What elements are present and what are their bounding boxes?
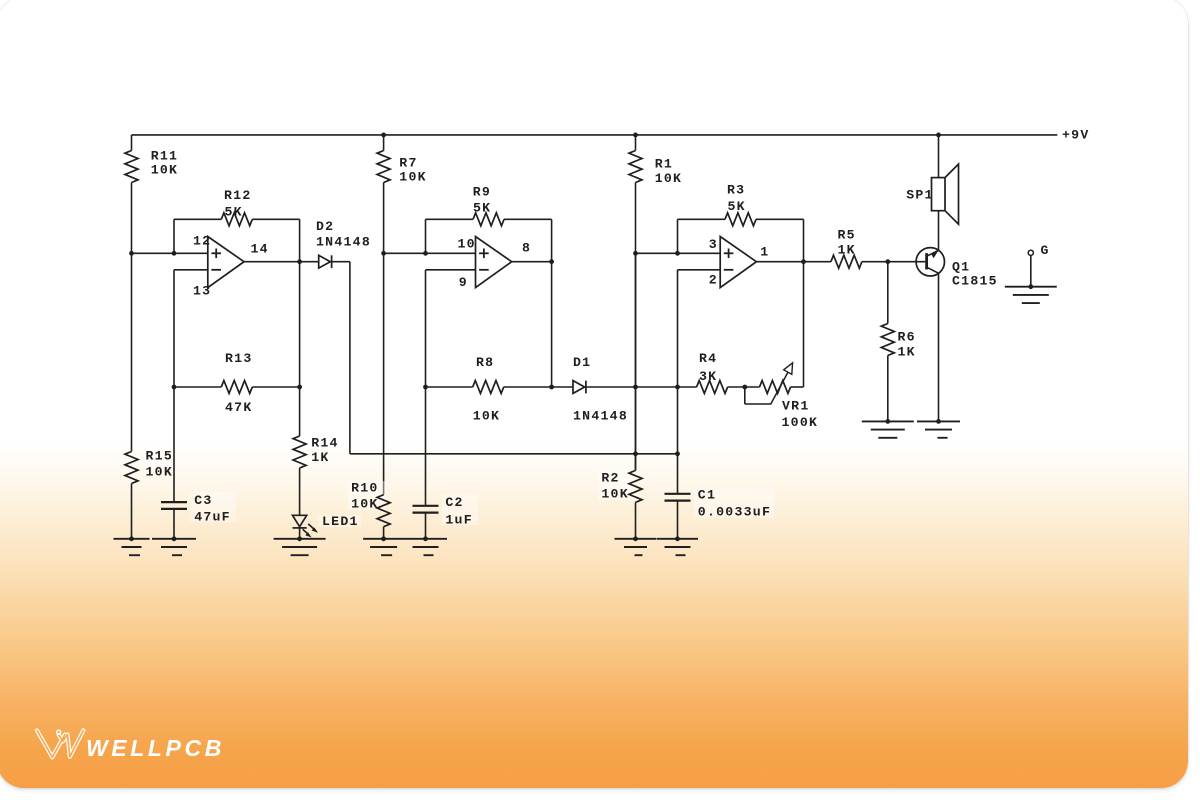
wire D2 cathode horizontal	[332, 261, 350, 263]
node U2 output junction	[549, 259, 554, 264]
svg-text:R11: R11	[151, 149, 179, 164]
svg-text:SP1: SP1	[906, 188, 934, 203]
ground under C1	[657, 536, 698, 555]
node D2 bus / R1R2 junction	[633, 451, 638, 456]
wire C1 to ground	[677, 501, 679, 539]
svg-text:WELLPCB: WELLPCB	[86, 735, 225, 761]
wire R6 branch upper	[887, 262, 889, 324]
svg-text:C3: C3	[194, 493, 212, 508]
node U2 +input / R9 junction	[423, 251, 428, 256]
wire R14 to LED1	[299, 468, 301, 515]
svg-text:0.0033uF: 0.0033uF	[698, 505, 771, 520]
svg-text:LED1: LED1	[322, 514, 359, 529]
ground under C3	[152, 536, 196, 555]
svg-text:1N4148: 1N4148	[573, 409, 628, 424]
node rail-R7 junction	[381, 133, 386, 138]
label +9V	[1062, 128, 1090, 143]
svg-text:47K: 47K	[225, 400, 253, 415]
wire U3 feedback right vertical	[803, 219, 805, 387]
svg-text:5K: 5K	[225, 205, 243, 220]
svg-text:C1: C1	[698, 488, 716, 503]
node U1 +input / divider junction	[129, 251, 134, 256]
resistor R15	[125, 449, 173, 484]
svg-text:R15: R15	[146, 449, 174, 464]
op-amp U2	[458, 236, 532, 290]
svg-text:R2: R2	[601, 471, 619, 486]
svg-text:C2: C2	[445, 495, 463, 510]
wire R9 feedback row left	[426, 218, 474, 220]
wire rail to SP1	[938, 135, 940, 178]
LED LED1	[293, 514, 362, 538]
wire R12 feedback row left	[174, 218, 221, 220]
wire R3 feedback row left	[678, 218, 726, 220]
wire R7 column top	[383, 135, 385, 151]
resistor R6	[881, 324, 916, 360]
node U1 output junction	[297, 259, 302, 264]
wire R1R2 column to bus	[635, 253, 637, 470]
wire op-amp U1 -input	[174, 269, 208, 271]
wire VR1 to feedback corner	[791, 386, 804, 388]
ground under C2	[404, 536, 447, 555]
svg-text:1K: 1K	[311, 450, 329, 465]
svg-text:R13: R13	[225, 351, 253, 366]
wire U1 feedback vertical	[299, 219, 301, 261]
op-amp U1	[193, 234, 269, 299]
wire D1 cathode to R4	[586, 386, 697, 388]
wire R6 to ground	[887, 356, 889, 422]
resistor R1	[629, 151, 682, 187]
wire C1 branch vertical middle	[677, 387, 679, 454]
svg-text:10K: 10K	[601, 487, 629, 502]
svg-text:R5: R5	[838, 228, 856, 243]
wire R13 row right	[252, 386, 299, 388]
svg-text:R3: R3	[727, 183, 745, 198]
svg-text:R8: R8	[476, 355, 494, 370]
svg-text:10K: 10K	[351, 497, 379, 512]
wire C2 to ground	[425, 513, 427, 539]
potentiometer VR1	[745, 363, 821, 430]
diode D2	[316, 219, 371, 268]
resistor R14	[293, 436, 339, 468]
svg-text:12: 12	[193, 234, 211, 249]
node R13 left junction	[172, 385, 177, 390]
resistor R13	[221, 351, 252, 415]
svg-text:R10: R10	[351, 481, 379, 496]
svg-text:1N4148: 1N4148	[316, 235, 371, 250]
svg-text:D1: D1	[573, 355, 591, 370]
svg-text:1: 1	[760, 244, 769, 259]
node R5 / R6 junction	[885, 259, 890, 264]
svg-text:R12: R12	[224, 188, 252, 203]
node R4 / VR1 wiper junction	[742, 385, 747, 390]
wire LED1 to ground	[299, 528, 301, 539]
svg-text:C1815: C1815	[952, 274, 998, 289]
node D2 bus / C1 junction	[675, 451, 680, 456]
svg-text:G: G	[1041, 243, 1050, 258]
svg-text:VR1: VR1	[782, 399, 810, 414]
wire R3 feedback row right	[756, 218, 804, 220]
wire U1 output vertical to R13/R14	[299, 262, 301, 387]
wire D2 bus vertical	[349, 262, 351, 454]
svg-text:3K: 3K	[699, 369, 717, 384]
svg-text:9: 9	[459, 275, 468, 290]
wire C3 branch vertical lower	[173, 387, 175, 502]
svg-text:Q1: Q1	[952, 260, 970, 275]
wire R1 column top	[635, 135, 637, 151]
ground under LED1	[274, 536, 326, 555]
node U2 +input / divider junction	[381, 251, 386, 256]
node R13 right junction	[297, 385, 302, 390]
svg-text:10K: 10K	[146, 465, 174, 480]
capacitor C2	[413, 494, 479, 528]
resistor R12	[221, 188, 252, 226]
wire U1 output	[244, 261, 319, 263]
wire R12 feedback row right	[252, 218, 299, 220]
node U2 output / R8 row junction	[549, 385, 554, 390]
resistor R9	[473, 185, 504, 226]
wire R9 feedback row right	[504, 218, 552, 220]
svg-text:10: 10	[458, 236, 476, 251]
node rail-R1 junction	[633, 133, 638, 138]
svg-text:5K: 5K	[473, 201, 491, 216]
svg-text:5K: 5K	[728, 199, 746, 214]
ground under G	[1005, 284, 1057, 303]
wire R10 to ground	[383, 527, 385, 539]
wire R5 to Q1 base	[862, 261, 925, 263]
node U1 +input / R12 junction	[172, 251, 177, 256]
node D1 row / R1R2 junction	[633, 385, 638, 390]
wire R4 to VR1	[728, 386, 760, 388]
svg-text:R9: R9	[473, 185, 491, 200]
wire R8 to D1	[504, 386, 573, 388]
resistor R2	[598, 470, 642, 502]
op-amp U3	[709, 237, 770, 288]
svg-text:1uF: 1uF	[445, 513, 473, 528]
terminal G	[1028, 243, 1049, 258]
wire U2 output	[512, 261, 552, 263]
wire Q1 collector to SP1	[938, 211, 940, 251]
wire R1 column middle	[635, 183, 637, 471]
wire C3 branch vertical upper	[173, 270, 175, 387]
wire U2 feedback vertical	[551, 219, 553, 261]
wire R2 to ground	[635, 502, 637, 538]
speaker SP1	[906, 164, 958, 224]
wire op-amp U3 -input	[678, 269, 721, 271]
wire +9V power rail	[132, 134, 1058, 136]
svg-text:3: 3	[709, 237, 718, 252]
svg-text:+9V: +9V	[1062, 128, 1090, 143]
wire Q1 emitter to ground	[938, 273, 940, 421]
wire U2 output vertical to R8 row	[551, 262, 553, 387]
wire left rail bottom segment	[131, 484, 133, 539]
svg-text:8: 8	[522, 241, 531, 256]
wire R7 column middle	[383, 183, 385, 495]
svg-text:1K: 1K	[898, 345, 916, 360]
ground under R6	[862, 419, 914, 438]
wire C1 branch vertical upper	[677, 270, 679, 387]
svg-text:10K: 10K	[151, 163, 179, 178]
wire C1 branch vertical lower	[677, 454, 679, 494]
svg-text:R1: R1	[655, 157, 673, 172]
svg-text:R6: R6	[898, 330, 916, 345]
svg-text:R4: R4	[699, 351, 717, 366]
wire op-amp U2 -input	[426, 269, 476, 271]
svg-text:100K: 100K	[782, 415, 819, 430]
wire op-amp U1 +input	[132, 252, 208, 254]
svg-text:R7: R7	[399, 156, 417, 171]
wire R12 left vertical	[173, 219, 175, 253]
wire U3 output to R5	[756, 261, 831, 263]
ground under Q1	[917, 419, 960, 438]
wire D2 bus horizontal	[350, 453, 678, 455]
resistor R11	[125, 149, 178, 183]
ground under R15	[114, 536, 150, 555]
resistor R10	[348, 481, 390, 527]
svg-text:10K: 10K	[473, 409, 501, 424]
node R8 left junction	[423, 385, 428, 390]
svg-text:14: 14	[251, 241, 269, 256]
wire left rail middle segment	[131, 183, 133, 452]
wire C2 branch vertical lower	[425, 387, 427, 506]
svg-text:47uF: 47uF	[194, 510, 231, 525]
resistor R8	[473, 355, 504, 424]
wire R9 left vertical	[425, 219, 427, 253]
capacitor C1	[665, 488, 775, 520]
resistor R3	[725, 183, 756, 226]
svg-text:13: 13	[193, 283, 211, 298]
ground under R2	[615, 536, 657, 555]
wire C3 to ground	[173, 509, 175, 539]
wire G to ground	[1030, 255, 1032, 286]
resistor R5	[831, 228, 862, 269]
resistor R7	[377, 151, 427, 185]
node U3 +input / R3 junction	[675, 251, 680, 256]
wire R14 branch upper	[299, 387, 301, 436]
wire left rail top segment	[131, 135, 133, 151]
capacitor C3	[161, 492, 236, 525]
node rail-SP1 junction	[936, 133, 941, 138]
wire R3 left vertical	[677, 219, 679, 253]
svg-text:D2: D2	[316, 219, 334, 234]
ground under R10	[363, 536, 404, 555]
node D1 row / C1 branch junction	[675, 385, 680, 390]
resistor R4	[697, 351, 728, 394]
wire R8 row left	[426, 386, 473, 388]
svg-text:2: 2	[709, 272, 718, 287]
svg-text:10K: 10K	[399, 170, 427, 185]
wire op-amp U3 +input	[636, 252, 721, 254]
svg-text:10K: 10K	[655, 171, 683, 186]
wire C2 branch vertical upper	[425, 270, 427, 387]
svg-text:1K: 1K	[838, 243, 856, 258]
svg-text:R14: R14	[311, 436, 339, 451]
WELLPCB logo icon	[37, 730, 83, 757]
diode D1	[570, 355, 628, 424]
wire R13 row left	[174, 386, 221, 388]
wire op-amp U2 +input	[384, 252, 476, 254]
node U3 output / feedback junction	[801, 259, 806, 264]
transistor Q1	[916, 248, 998, 289]
node U3 +input / divider junction	[633, 251, 638, 256]
